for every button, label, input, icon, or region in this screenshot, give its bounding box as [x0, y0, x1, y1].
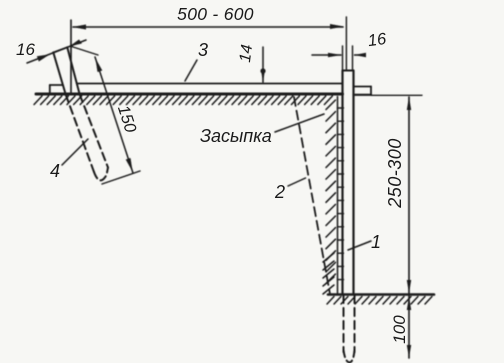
- svg-text:500 - 600: 500 - 600: [177, 4, 254, 24]
- svg-text:Засыпка: Засыпка: [200, 126, 272, 146]
- svg-text:250-300: 250-300: [385, 138, 405, 209]
- svg-text:1: 1: [371, 232, 381, 252]
- svg-text:2: 2: [274, 182, 285, 202]
- svg-text:100: 100: [390, 315, 409, 344]
- svg-text:14: 14: [237, 43, 256, 63]
- svg-text:16: 16: [16, 40, 35, 59]
- svg-text:3: 3: [198, 40, 208, 60]
- svg-text:16: 16: [367, 30, 388, 50]
- svg-text:4: 4: [50, 161, 60, 181]
